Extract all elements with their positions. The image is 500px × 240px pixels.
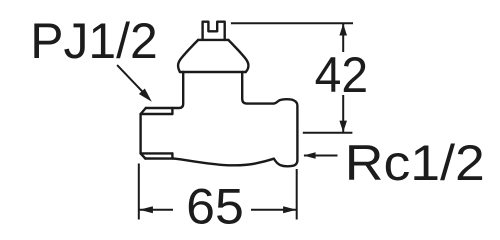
dimension line 65 left segment — [139, 209, 173, 211]
bonnet base line — [180, 71, 246, 73]
extension line 65 left — [138, 164, 140, 220]
body outline right neck barrel and socket — [242, 72, 297, 166]
thread chamfer bottom — [141, 153, 146, 158]
svg-text:PJ1/2: PJ1/2 — [30, 13, 158, 69]
svg-text:Rc1/2: Rc1/2 — [345, 135, 485, 191]
body outline left neck and arm — [146, 72, 183, 108]
arrowhead 65 left — [139, 206, 153, 213]
arrowhead 42 down — [339, 121, 347, 133]
svg-text:42: 42 — [315, 47, 369, 103]
arrowhead Rc1/2 leader — [303, 152, 315, 159]
thread root line bottom — [141, 152, 173, 154]
extension line 65 right — [296, 169, 298, 220]
arrowhead 42 up — [339, 24, 347, 36]
body bottom wavy line — [174, 159, 274, 166]
thread runout stub top — [171, 108, 173, 114]
thread runout stub bottom — [171, 153, 173, 158]
dimension line 42 lower — [342, 95, 344, 132]
thread root line top — [141, 113, 173, 115]
svg-text:65: 65 — [186, 179, 244, 235]
extension line port centerline — [303, 132, 353, 134]
dimension line 42 upper — [342, 24, 344, 52]
arrowhead 65 right — [283, 206, 297, 213]
bonnet dome — [178, 40, 248, 72]
thread chamfer top — [141, 108, 146, 114]
thread crest line bottom — [145, 157, 174, 160]
leader line PJ1/2 — [117, 65, 144, 93]
extension line stem top — [231, 22, 353, 24]
valve stem — [203, 22, 225, 40]
arrowhead PJ1/2 leader — [139, 89, 152, 102]
bonnet top line — [198, 39, 228, 41]
dimension line 65 right segment — [251, 209, 296, 211]
thread end face — [139, 114, 141, 153]
leader line Rc1/2 — [304, 155, 338, 157]
